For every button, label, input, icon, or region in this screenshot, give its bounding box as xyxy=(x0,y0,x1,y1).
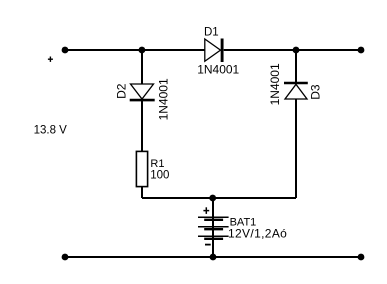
node bottom left xyxy=(62,254,69,261)
svg-text:1N4001: 1N4001 xyxy=(268,63,282,105)
battery BAT1 xyxy=(198,217,229,239)
svg-text:1N4001: 1N4001 xyxy=(156,78,170,120)
wire D3 to mid rail xyxy=(295,99,297,198)
resistor R1 xyxy=(136,151,147,186)
diode D2 xyxy=(130,84,155,100)
wire bottom rail xyxy=(65,256,361,258)
node junction D2 top xyxy=(139,47,146,54)
wire battery stem xyxy=(212,198,214,257)
svg-text:1N4001: 1N4001 xyxy=(197,62,239,76)
svg-text:100: 100 xyxy=(150,170,169,182)
wire R1 to mid rail xyxy=(141,187,143,198)
svg-text:R1: R1 xyxy=(150,158,164,170)
label battery plus xyxy=(203,207,209,214)
wire mid rail xyxy=(142,197,296,199)
wire top-left segment xyxy=(65,49,205,51)
svg-text:13.8 V: 13.8 V xyxy=(34,124,68,136)
svg-text:D2: D2 xyxy=(115,83,129,99)
node output top right xyxy=(358,47,365,54)
node input + xyxy=(62,47,69,54)
node battery top junction xyxy=(209,195,216,202)
label + terminal xyxy=(48,57,53,62)
diode D1 xyxy=(205,39,222,63)
node junction D3 top xyxy=(293,47,300,54)
node battery bottom junction xyxy=(210,254,217,261)
svg-text:D3: D3 xyxy=(308,84,322,100)
wire D2 to R1 xyxy=(141,101,143,152)
svg-text:D1: D1 xyxy=(204,26,219,38)
node bottom right xyxy=(358,254,365,261)
wire D2 branch upper xyxy=(141,50,143,84)
wire D3 branch upper xyxy=(295,50,297,82)
svg-text:12V/1,2Aó: 12V/1,2Aó xyxy=(228,227,287,241)
diode D3 xyxy=(284,83,308,99)
label battery minus xyxy=(205,244,211,246)
wire top-right segment xyxy=(224,49,361,51)
